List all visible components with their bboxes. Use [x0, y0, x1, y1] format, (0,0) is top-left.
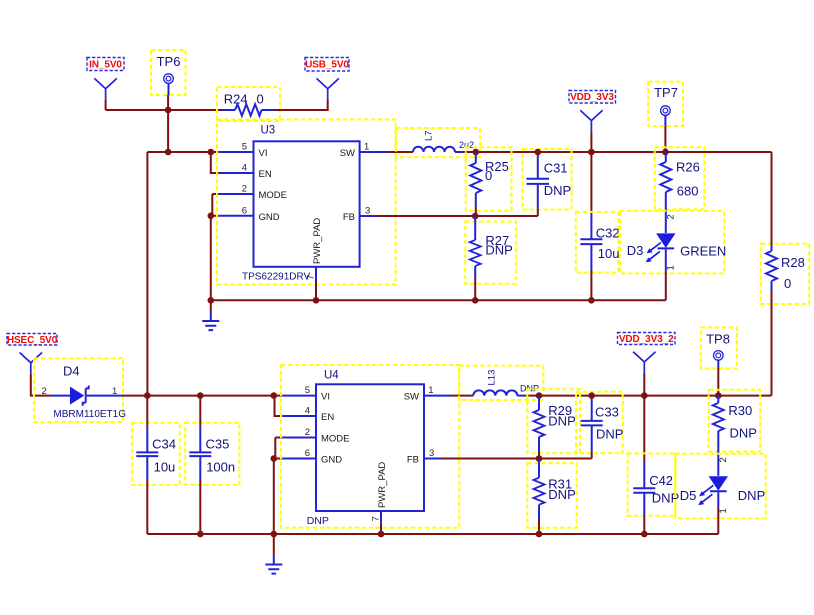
wire L13 to node	[528, 395, 539, 397]
svg-text:VDD_3V3_2: VDD_3V3_2	[619, 334, 674, 345]
svg-text:TPS62291DRV: TPS62291DRV	[242, 272, 311, 283]
capacitor C32	[576, 212, 620, 273]
wire D5 to bottom rail	[717, 508, 719, 534]
resistor R29	[527, 389, 580, 453]
svg-text:IN_5V0: IN_5V0	[89, 60, 122, 71]
pin 3 FB (U4)	[407, 448, 441, 466]
svg-text:D3: D3	[627, 243, 644, 258]
node HSEC_5V0 label	[7, 334, 58, 347]
svg-text:DNP: DNP	[596, 426, 623, 441]
svg-text:R26: R26	[676, 159, 700, 174]
resistor R27	[465, 216, 516, 284]
wire C34 to bottom rail	[146, 480, 148, 534]
junction U4 GND	[271, 455, 278, 462]
wire R25 to FB rail	[475, 208, 477, 216]
pin 6 GND	[220, 205, 280, 223]
junction pin7 U4	[378, 531, 385, 538]
svg-text:D5: D5	[680, 488, 697, 503]
power symbol IN_5V0	[94, 78, 116, 99]
svg-text:10u: 10u	[598, 246, 620, 261]
svg-text:100n: 100n	[206, 460, 235, 475]
svg-text:GND: GND	[321, 455, 342, 466]
svg-text:U4: U4	[324, 370, 339, 382]
svg-text:FB: FB	[407, 455, 419, 466]
pin 1 SW	[340, 142, 387, 160]
svg-text:2: 2	[666, 214, 677, 219]
pin 6 GND (U4)	[282, 448, 342, 466]
resistor R26	[655, 147, 705, 233]
wire MODE to GND	[211, 194, 213, 216]
svg-text:0: 0	[257, 92, 264, 107]
wire U4 VI to EN	[274, 396, 283, 416]
junction C35 bottom	[197, 531, 204, 538]
capacitor C35	[185, 396, 239, 485]
svg-text:EN: EN	[321, 412, 334, 423]
wire R31 to bottom rail	[538, 520, 540, 534]
pin 3 FB	[343, 206, 378, 224]
junction L13/R29	[536, 392, 543, 399]
svg-text:1: 1	[428, 385, 433, 396]
wire L7 to SW node	[462, 151, 476, 153]
pin 7 PWR_PAD (U4)	[371, 462, 389, 523]
testpoint TP7	[648, 82, 683, 126]
testpoint TP8	[701, 328, 737, 369]
wire R27 to bottom rail	[474, 278, 476, 300]
ground top circuit	[202, 312, 219, 331]
wire C42 to bottom rail	[643, 516, 645, 534]
IC U3 body	[254, 125, 360, 267]
junction C35 top	[197, 392, 204, 399]
node VDD_3V3 label	[569, 91, 616, 104]
pin 4 EN	[220, 163, 272, 181]
svg-text:L7: L7	[424, 130, 435, 141]
wire ground stem	[210, 300, 212, 311]
wire SW to L7	[387, 151, 413, 153]
wire U4 MODE horizontal	[275, 437, 282, 439]
capacitor C33	[576, 392, 623, 454]
wire GND pin to ground rail	[210, 216, 212, 300]
svg-text:0: 0	[485, 168, 492, 183]
svg-text:2: 2	[242, 184, 247, 195]
svg-text:DNP: DNP	[548, 487, 575, 502]
svg-text:L13: L13	[487, 370, 498, 386]
junction C42 bottom	[641, 531, 648, 538]
svg-text:HSEC_5V0: HSEC_5V0	[7, 335, 58, 346]
wire R28 top from rail	[771, 152, 773, 245]
junction R27 bottom	[472, 297, 479, 304]
resistor R28	[761, 244, 810, 304]
svg-text:C32: C32	[596, 226, 620, 241]
svg-text:1: 1	[112, 386, 117, 397]
junction ground rail left	[208, 297, 215, 304]
wire R29 to FB rail	[538, 452, 540, 459]
svg-text:R30: R30	[728, 403, 752, 418]
wire IN_5V0 to R24	[106, 109, 223, 111]
junction ground bottom rail	[271, 531, 278, 538]
svg-text:680: 680	[677, 183, 699, 198]
resistor R24	[217, 87, 280, 121]
svg-text:C34: C34	[152, 437, 176, 452]
inductor L13	[459, 366, 543, 400]
junction FB/R25/R27	[472, 213, 479, 220]
node VDD_3V3_2 label	[618, 333, 676, 346]
svg-text:3: 3	[429, 448, 434, 459]
node USB_5V0 label	[305, 58, 349, 72]
wire rail to VDD_3V3_2 area	[539, 395, 772, 397]
power symbol USB_5V0	[317, 78, 339, 99]
svg-text:GREEN: GREEN	[680, 244, 726, 259]
svg-text:4: 4	[305, 406, 310, 417]
junction C33 top	[588, 392, 595, 399]
svg-text:DNP: DNP	[730, 426, 757, 441]
junction SW/R25	[473, 149, 480, 156]
LED D3	[620, 211, 726, 274]
IC U3 group box	[217, 120, 396, 285]
wire pin7 to bottom rail	[315, 281, 317, 300]
junction VDD rail	[588, 149, 595, 156]
svg-text:6: 6	[242, 205, 247, 216]
resistor R31	[527, 459, 576, 528]
junction U3 VI	[208, 149, 215, 156]
wire pin7 U4 to bottom rail	[380, 522, 382, 534]
power symbol VDD_3V3	[580, 110, 602, 131]
wire SW node rail to right	[476, 151, 772, 153]
wire R24 to USB_5V0	[274, 100, 328, 110]
testpoint TP6	[151, 50, 186, 95]
svg-text:EN: EN	[259, 169, 272, 180]
wire U4 GND down to bottom rail	[273, 459, 275, 535]
ground bottom circuit	[265, 555, 282, 574]
wire C35 to bottom rail	[199, 480, 201, 534]
svg-text:4: 4	[242, 163, 247, 174]
svg-text:7: 7	[371, 516, 382, 521]
wire SW U4 to L13	[451, 395, 473, 397]
svg-text:TP6: TP6	[157, 54, 181, 69]
svg-text:DNP: DNP	[307, 515, 329, 527]
svg-text:MBRM110ET1G: MBRM110ET1G	[53, 409, 126, 420]
wire FB rail U4	[441, 458, 592, 460]
wire rail bottom circuit left	[147, 395, 273, 397]
wire GND pin red part	[211, 215, 220, 217]
wire FB rail	[378, 215, 538, 217]
wire bottom rail top circuit	[211, 299, 666, 301]
svg-text:1: 1	[364, 142, 369, 153]
junction U3 GND	[208, 213, 215, 220]
junction TP8/R30	[715, 392, 722, 399]
pin 5 VI (U4)	[282, 385, 330, 403]
svg-text:VDD_3V3: VDD_3V3	[570, 92, 614, 103]
junction VI rail at x168	[165, 149, 172, 156]
wire VI to EN	[211, 152, 220, 173]
junction D4/C34/down-feed	[144, 392, 151, 399]
svg-text:PWR_PAD: PWR_PAD	[377, 462, 388, 508]
junction pin7 bottom	[313, 297, 320, 304]
IC U4 body	[316, 370, 424, 512]
svg-text:GND: GND	[259, 212, 280, 223]
wire C32 to bottom rail	[590, 270, 592, 300]
pin 2 MODE (U4)	[282, 427, 349, 445]
power symbol HSEC_5V0	[20, 353, 42, 374]
junction R31 bottom	[536, 531, 543, 538]
wire TP6 stem	[167, 95, 169, 110]
pin 2 MODE	[220, 184, 287, 202]
svg-text:5: 5	[242, 142, 247, 153]
wire bottom rail bottom circuit	[147, 533, 718, 535]
junction C32 bottom	[588, 297, 595, 304]
svg-text:SW: SW	[404, 392, 419, 403]
pin 7 PWR_PAD	[306, 218, 324, 281]
svg-text:2: 2	[42, 386, 47, 397]
pin 1 SW (U4)	[404, 385, 451, 403]
wire D3 to bottom rail	[665, 272, 667, 300]
wire C31 bottom to FB rail	[537, 209, 539, 216]
svg-text:VI: VI	[259, 148, 268, 159]
wire TP8 stem	[717, 368, 719, 396]
svg-text:FB: FB	[343, 212, 355, 223]
wire U4 VI pin red part	[274, 395, 283, 397]
svg-text:C31: C31	[544, 161, 568, 176]
svg-text:1: 1	[718, 508, 729, 513]
svg-text:C42: C42	[649, 473, 673, 488]
svg-text:U3: U3	[261, 125, 276, 137]
svg-text:PWR_PAD: PWR_PAD	[312, 218, 323, 264]
wire VI rail	[147, 151, 210, 153]
pin 5 VI	[220, 142, 268, 160]
IC U4 group box	[281, 365, 459, 528]
wire MODE horizontal	[212, 193, 220, 195]
svg-text:TP7: TP7	[654, 85, 678, 100]
wire C33 bottom corner to FB rail	[591, 452, 593, 459]
resistor R30	[709, 390, 761, 476]
wire IN_5V0 stem	[105, 100, 107, 110]
svg-text:USB_5V0: USB_5V0	[305, 60, 349, 71]
junction FB/R29/R31	[536, 455, 543, 462]
junction U4 VI	[271, 392, 278, 399]
svg-text:MODE: MODE	[321, 434, 350, 445]
wire TP6 down to VI rail	[167, 110, 169, 152]
junction TP7/R26	[662, 149, 669, 156]
LED D5	[675, 454, 765, 518]
svg-text:DNP: DNP	[738, 488, 765, 503]
svg-text:10u: 10u	[154, 460, 176, 475]
svg-text:DNP: DNP	[548, 414, 575, 429]
svg-text:MODE: MODE	[259, 190, 288, 201]
node IN_5V0 label	[87, 58, 124, 71]
wire D4 to rail	[123, 395, 147, 397]
wire ground stem bottom	[273, 534, 275, 555]
svg-text:2: 2	[305, 427, 310, 438]
junction VDD_3V3_2 rail	[641, 392, 648, 399]
wire R28 bottom to VDD_3V3_2 rail	[771, 292, 773, 396]
svg-text:VI: VI	[321, 392, 330, 403]
wire U4 MODE to GND	[274, 438, 276, 459]
svg-text:TP8: TP8	[706, 332, 730, 347]
svg-text:0: 0	[784, 276, 791, 291]
wire HSEC stem	[31, 374, 52, 396]
svg-text:5: 5	[305, 385, 310, 396]
svg-text:1: 1	[666, 265, 677, 270]
svg-text:SW: SW	[340, 148, 355, 159]
wire VDD_3V3_2 down through C42	[643, 396, 645, 462]
junction TP6/IN_5V0	[165, 107, 172, 114]
svg-text:DNP: DNP	[485, 243, 512, 258]
diode D4	[34, 358, 126, 422]
svg-text:R28: R28	[781, 255, 805, 270]
wire TP7 stem	[664, 125, 666, 152]
svg-text:DNP: DNP	[544, 183, 571, 198]
svg-text:6: 6	[305, 448, 310, 459]
svg-text:3: 3	[365, 206, 370, 217]
junction C31 top	[535, 149, 542, 156]
wire VDD stem	[590, 132, 592, 152]
inductor L7	[396, 128, 480, 157]
svg-text:D4: D4	[63, 363, 80, 378]
capacitor C34	[132, 396, 180, 485]
capacitor C42	[628, 453, 680, 516]
svg-text:C35: C35	[206, 437, 230, 452]
power symbol VDD_3V3_2	[633, 352, 655, 373]
wire VI pin red part	[211, 151, 220, 153]
wire VDD_3V3_2 stem	[643, 373, 645, 396]
pin 4 EN (U4)	[282, 406, 334, 424]
svg-text:C33: C33	[595, 405, 619, 420]
svg-text:R24: R24	[224, 92, 248, 107]
capacitor C31	[523, 149, 572, 210]
wire VI rail left corner down to bottom circuit	[146, 152, 148, 396]
resistor R25	[466, 147, 512, 210]
svg-text:2: 2	[718, 457, 729, 462]
wire U4 GND pin red part	[274, 458, 283, 460]
wire VDD down through C32	[590, 152, 592, 213]
